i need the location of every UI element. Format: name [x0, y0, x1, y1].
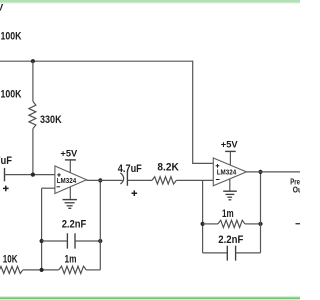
- node: feedback cap row left: [40, 239, 44, 243]
- svg-text:100K: 100K: [1, 31, 22, 43]
- svg-text:Output: Output: [293, 185, 300, 194]
- top green border bar: [0, 0, 300, 4]
- node: 1m row right: [258, 222, 262, 226]
- wire: 330K bottom lead: [32, 129, 34, 176]
- resistor 10K (cut off at left edge): [0, 266, 23, 273]
- svg-text:2.2nF: 2.2nF: [62, 218, 87, 230]
- ground fragment at right edge: [296, 223, 301, 225]
- wire: U1 output rail vertical: [99, 180, 101, 270]
- op-amp U1 LM324 triangle: [55, 166, 87, 194]
- svg-text:330K: 330K: [40, 114, 62, 126]
- svg-text:+5V: +5V: [0, 3, 3, 13]
- wire: cap row stage 2 right: [236, 252, 261, 254]
- wire: 8.2K to U2 inverting input: [176, 179, 213, 181]
- node: U2 output junction: [258, 170, 262, 174]
- capacitor 2.2nF stage 1 plates: [67, 233, 75, 248]
- wire: U1 inverting input stub: [42, 187, 55, 189]
- bottom green border bar: [0, 296, 300, 299]
- svg-text:8.2K: 8.2K: [157, 162, 178, 174]
- node: bottom junction: [40, 268, 44, 272]
- node: feedback cap row right: [98, 239, 102, 243]
- node: U1 output junction: [98, 178, 102, 182]
- svg-text:+5V: +5V: [60, 148, 77, 158]
- wire: cap row left segment: [42, 240, 68, 242]
- ground below U2: [223, 179, 237, 200]
- svg-text:100K: 100K: [1, 89, 22, 101]
- resistor 8.2K: [152, 177, 176, 184]
- wire: input to U1 non-inverting: [5, 174, 55, 176]
- wire: 1m to output rail: [86, 269, 100, 271]
- op-amp U2 minus input marker: [216, 179, 220, 181]
- op-amp U1 minus input marker: [57, 186, 61, 188]
- op-amp U2 LM324 triangle: [213, 158, 246, 186]
- wire: cap row stage 2 left: [203, 252, 228, 254]
- svg-text:LM324: LM324: [217, 168, 237, 177]
- op-amp U2 plus input marker: [216, 164, 220, 168]
- wire: 1m row right lead: [245, 223, 261, 225]
- wire: cap to 8.2K: [127, 179, 152, 181]
- svg-text:4.7uF: 4.7uF: [0, 155, 12, 167]
- node: 1m row left: [201, 222, 205, 226]
- wire: bias rail vertical drop to U2: [192, 61, 194, 164]
- wire: bias rail horizontal: [0, 60, 193, 62]
- svg-text:+5V: +5V: [221, 140, 238, 150]
- wire: U2 output rail vertical: [260, 172, 262, 253]
- wire: U1 output to coupling cap: [87, 179, 123, 181]
- capacitor 4.7uF coupling, curved plate: [120, 173, 123, 184]
- wire: U2 output to edge: [246, 171, 300, 173]
- power +5V for U2: [221, 140, 238, 165]
- wire: 1m row left lead: [203, 223, 218, 225]
- wire: 10K to junction: [23, 269, 59, 271]
- node: input junction with 330K: [31, 173, 35, 177]
- power +5V for U1: [60, 148, 77, 172]
- wire: 330K top lead: [32, 61, 34, 101]
- svg-text:LM324: LM324: [57, 176, 77, 185]
- wire: into U2 non-inverting input: [192, 162, 213, 164]
- capacitor 4.7uF input, positive plate: [4, 168, 6, 181]
- capacitor 4.7uF coupling, straight plate: [126, 171, 128, 186]
- wire: cap row right segment: [75, 240, 100, 242]
- svg-text:10K: 10K: [3, 254, 18, 266]
- ground below U1: [63, 187, 77, 209]
- capacitor 2.2nF stage 2 plates: [227, 246, 235, 261]
- svg-text:2.2nF: 2.2nF: [218, 234, 243, 246]
- wire: left feedback rail vertical: [41, 188, 43, 270]
- capacitor coupling polarity plus: [132, 190, 138, 196]
- capacitor input polarity plus: [3, 186, 9, 192]
- op-amp U1 plus input marker: [57, 173, 61, 177]
- resistor 1m stage 1: [59, 266, 86, 273]
- svg-text:1m: 1m: [222, 208, 234, 220]
- resistor 1m stage 2: [218, 220, 245, 227]
- wire: mid feedback drop: [202, 180, 204, 253]
- resistor 330K: [29, 101, 36, 128]
- svg-text:1m: 1m: [65, 254, 77, 266]
- node: bias junction: [31, 59, 35, 63]
